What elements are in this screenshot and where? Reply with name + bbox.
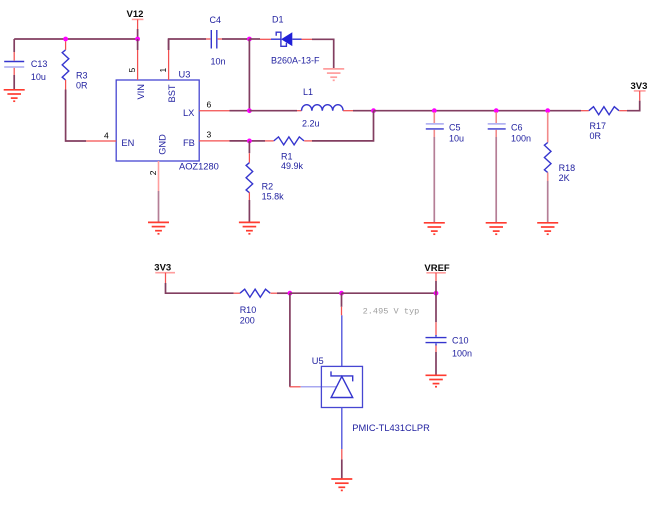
wire top rail [14,38,137,40]
resistor R2 [246,141,284,201]
ground below C13 [4,90,25,101]
svg-text:R10: R10 [240,305,257,315]
wire C5 to ground [433,137,435,222]
op-amp U3 body [116,80,199,161]
svg-text:R1: R1 [281,152,293,162]
svg-text:2K: 2K [559,173,570,183]
U5 cathode pin [341,315,343,366]
power port 3V3 (bottom left) [154,262,175,283]
U5 ref pin (pale) [301,386,337,388]
svg-text:C4: C4 [210,15,222,25]
wire cathode node to VREF node [342,292,437,294]
svg-text:R3: R3 [76,70,88,80]
node LX column [247,108,252,113]
ground below U5 [331,479,352,490]
wire cathode node down [341,293,343,307]
svg-text:R18: R18 [559,163,576,173]
svg-text:4: 4 [104,130,109,140]
node BST cap / diode / LX [247,37,252,42]
pin 1 BST [158,39,177,103]
wire REF red segment [290,386,301,388]
svg-text:5: 5 [127,68,137,73]
ground below C6 [486,223,507,234]
wire R10 to REF node [277,292,290,294]
pin 4 EN [86,130,134,148]
diode D1 [260,14,320,65]
wire output rail [374,110,582,112]
node R18 [545,108,550,113]
wire D1 anode to ground [312,39,334,68]
wire REF node to cathode node [290,292,342,294]
wire R17 to 3V3 [627,101,640,111]
wire LX junction to L1 [249,110,297,112]
svg-text:R17: R17 [590,121,607,131]
node REF [288,291,293,296]
svg-text:15.8k: 15.8k [262,191,285,201]
pin 2 GND [148,134,168,191]
wire REF node down to U5 [289,293,291,387]
ground below U3 [148,222,169,233]
inductor L1 [297,87,353,129]
svg-text:AOZ1280: AOZ1280 [179,162,219,172]
svg-text:0R: 0R [590,131,602,141]
svg-text:C6: C6 [511,123,523,133]
wire GND pin to ground [158,191,160,222]
resistor R3 [62,41,88,90]
wire FB junction to R1 [249,140,265,142]
svg-text:C5: C5 [449,123,461,133]
wire anode red segment [341,449,343,459]
svg-text:U5: U5 [312,356,324,366]
wire R3 to EN [66,90,87,142]
wire C4 to LX node [222,38,249,40]
node top-rail/R3 [63,37,68,42]
svg-text:LX: LX [183,108,194,118]
svg-text:GND: GND [158,134,168,155]
wire C6 to ground [495,137,497,222]
svg-text:B260A-13-F: B260A-13-F [271,56,320,66]
wire BST to C4 [169,39,206,50]
node C5 [432,108,437,113]
transistor U5 TL431 body [312,356,430,433]
power port 3V3 (top right) [631,81,648,101]
svg-text:1: 1 [158,68,168,73]
pin 6 LX [183,99,230,118]
ground below D1 (pale) [323,69,344,80]
power port V12 [127,9,144,29]
wire R2 to ground [248,200,250,222]
wire LX node vertical [248,39,250,111]
node cathode [339,291,344,296]
svg-text:EN: EN [121,138,134,148]
svg-text:3: 3 [207,129,212,139]
svg-text:49.9k: 49.9k [281,161,304,171]
wire cathode red segment [341,307,343,316]
svg-text:FB: FB [183,138,195,148]
svg-text:200: 200 [240,316,255,326]
wire 3V3 stem to R10 [166,283,234,293]
U5 anode pin [341,408,343,450]
svg-text:2: 2 [148,170,158,175]
svg-text:10n: 10n [211,57,226,67]
resistor R1 [265,137,312,171]
wire anode to ground [341,459,343,478]
capacitor C6 [488,112,531,144]
node C6 [494,108,499,113]
svg-text:100n: 100n [452,349,472,359]
resistor R18 [544,112,575,183]
svg-text:D1: D1 [272,14,284,24]
capacitor C5 [426,112,464,144]
pin 5 VIN [127,39,146,100]
capacitor C10 [426,293,473,375]
wire R1 to output node [312,111,374,141]
wire V12 stem [137,29,139,39]
wire LX to junction [230,110,250,112]
svg-text:10u: 10u [31,72,46,82]
svg-text:C13: C13 [31,59,48,69]
svg-text:BST: BST [167,84,177,102]
svg-text:C10: C10 [452,336,469,346]
node top-rail/V12 [135,37,140,42]
ground below C5 [424,223,445,234]
wire R18 to ground [547,181,549,222]
svg-text:PMIC-TL431CLPR: PMIC-TL431CLPR [352,423,430,433]
svg-text:10u: 10u [449,134,464,144]
wire FB pin to junction [230,140,250,142]
power port VREF [424,263,450,293]
node VREF [434,291,439,296]
svg-text:VIN: VIN [136,84,146,100]
pin 3 FB [183,129,230,148]
svg-text:2.495 V typ: 2.495 V typ [363,307,420,317]
svg-text:3V3: 3V3 [154,262,171,273]
ground below R2 [239,222,260,233]
svg-text:U3: U3 [179,69,191,79]
node output / FB divider top [371,108,376,113]
svg-text:V12: V12 [127,9,144,20]
node FB column [247,139,252,144]
svg-text:2.2u: 2.2u [302,119,320,129]
resistor R10 [234,289,277,325]
capacitor C4 [206,15,226,67]
svg-text:100n: 100n [511,134,531,144]
wire L1 to output node [353,110,374,112]
svg-text:0R: 0R [76,81,88,91]
svg-text:R2: R2 [262,182,274,192]
capacitor C13 [4,39,47,89]
wire node to D1 [249,38,260,40]
resistor R17 [581,107,627,141]
ground below R18 [537,223,558,234]
ground below C10 [426,375,447,386]
svg-text:L1: L1 [303,87,313,97]
svg-text:6: 6 [207,99,212,109]
